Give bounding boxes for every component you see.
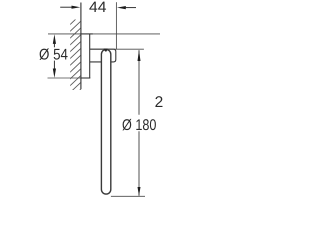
svg-text:44: 44: [89, 0, 107, 16]
svg-text:Ø 180: Ø 180: [122, 117, 157, 134]
svg-text:2: 2: [155, 94, 164, 111]
svg-text:Ø 54: Ø 54: [39, 46, 68, 63]
